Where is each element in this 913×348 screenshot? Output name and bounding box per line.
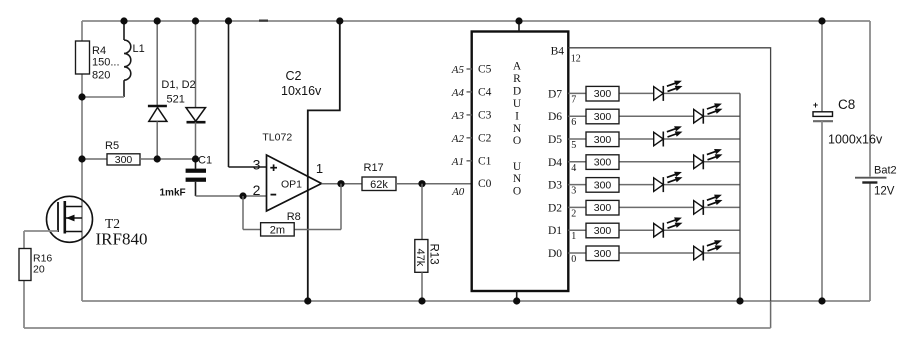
svg-text:62k: 62k	[370, 179, 388, 191]
pin B4 and wire to LED return bus	[551, 46, 771, 302]
wire feedback loop	[243, 184, 341, 230]
svg-text:300: 300	[594, 179, 612, 191]
wire row D7	[568, 92, 740, 94]
junction pin2 / feedback node	[239, 192, 246, 199]
wire outer bottom return	[24, 281, 771, 329]
svg-text:1: 1	[571, 231, 576, 242]
resistor 300 (D6)	[586, 109, 619, 124]
wire arduino bottom stub	[516, 291, 518, 301]
svg-text:A2: A2	[451, 133, 465, 145]
svg-text:7: 7	[571, 94, 576, 105]
junction top rail / L1	[120, 17, 127, 24]
pin stub A4	[451, 87, 472, 99]
svg-text:6: 6	[571, 117, 576, 128]
wire left frame vertical	[81, 21, 83, 301]
pin label D2	[548, 202, 576, 219]
svg-text:D6: D6	[548, 111, 562, 123]
resistor R17	[362, 162, 396, 191]
label D1 D2 values	[161, 79, 195, 105]
junction output node	[337, 180, 344, 187]
junction top rail / D2	[192, 17, 199, 24]
resistor 300 (D4)	[586, 155, 619, 170]
junction left rail / R5	[78, 155, 85, 162]
capacitor C8	[813, 21, 883, 301]
svg-text:D3: D3	[548, 180, 562, 192]
svg-text:C8: C8	[838, 97, 855, 112]
svg-text:+: +	[813, 100, 818, 110]
label ARDUINO UNO vertical	[513, 61, 522, 198]
wire row D4	[568, 161, 740, 163]
svg-text:1: 1	[316, 161, 323, 176]
LED D0	[694, 240, 723, 260]
svg-text:300: 300	[115, 154, 133, 166]
pin label D7	[548, 88, 576, 105]
svg-text:20: 20	[33, 264, 45, 276]
diode D2	[186, 21, 206, 159]
svg-text:D2: D2	[548, 202, 562, 214]
junction A0 / R13 node	[418, 180, 425, 187]
svg-text:10x16v: 10x16v	[281, 84, 322, 98]
svg-text:C2: C2	[286, 69, 302, 83]
pin stub A3	[451, 110, 472, 122]
svg-text:O: O	[513, 186, 521, 198]
svg-text:5: 5	[571, 140, 576, 151]
svg-text:D1: D1	[548, 225, 562, 237]
svg-text:R4: R4	[92, 45, 106, 57]
junction top rail / pin3 branch	[225, 17, 232, 24]
resistor 300 (D5)	[586, 132, 619, 147]
resistor 300 (D0)	[586, 246, 619, 261]
resistor R13	[414, 184, 439, 301]
LED D5	[654, 126, 683, 146]
junction bottom rail / LED bus	[736, 297, 743, 304]
svg-text:N: N	[513, 123, 522, 135]
svg-text:2m: 2m	[270, 225, 285, 237]
IC Arduino UNO	[472, 32, 569, 292]
svg-text:12V: 12V	[874, 186, 895, 198]
svg-text:A5: A5	[451, 64, 465, 76]
svg-text:300: 300	[594, 88, 612, 100]
junction bottom rail / C8	[818, 297, 825, 304]
svg-text:D7: D7	[548, 88, 562, 100]
junction C1 top node	[192, 155, 199, 162]
wire op-amp output to R17	[322, 183, 363, 185]
pin label D4	[548, 157, 576, 174]
svg-text:U: U	[513, 98, 522, 110]
svg-text:R5: R5	[105, 140, 119, 152]
wire C2 branch (stepped, top rail to bottom rail)	[308, 21, 340, 301]
pin label D1	[548, 225, 576, 242]
wire row D6	[568, 115, 740, 117]
svg-text:2: 2	[253, 182, 261, 198]
junction top rail / D1	[154, 17, 161, 24]
svg-text:R: R	[513, 73, 521, 85]
wire row D3	[568, 184, 740, 186]
svg-text:A: A	[513, 61, 522, 73]
svg-text:A0: A0	[451, 186, 465, 198]
wire R17 to A0	[396, 183, 472, 185]
svg-text:D4: D4	[548, 157, 562, 169]
svg-text:150...: 150...	[92, 57, 120, 69]
svg-text:C4: C4	[478, 86, 492, 98]
LED D7	[654, 81, 683, 101]
svg-text:820: 820	[92, 70, 110, 82]
inductor L1	[82, 21, 145, 97]
wire top rail to op-amp pin 3	[229, 21, 267, 167]
svg-text:521: 521	[167, 93, 185, 105]
svg-text:12: 12	[571, 54, 581, 65]
svg-text:2: 2	[571, 208, 576, 219]
svg-text:R13: R13	[428, 244, 440, 265]
svg-text:300: 300	[594, 225, 612, 237]
junction D1 / R5 wire	[154, 155, 161, 162]
wire right vertical (battery branch)	[869, 21, 871, 301]
LED D1	[654, 217, 683, 237]
LED D3	[654, 172, 683, 192]
resistor R5	[82, 140, 196, 166]
svg-text:I: I	[515, 110, 519, 122]
svg-text:3: 3	[571, 186, 576, 197]
pin stub A2	[451, 133, 472, 145]
junction top rail / arduino	[515, 17, 522, 24]
transistor T2 IRF840	[47, 196, 148, 248]
capacitor C2 label	[281, 69, 322, 98]
wire row D0	[568, 252, 740, 254]
junction R4-L1 node	[78, 93, 85, 100]
svg-text:Bat2: Bat2	[874, 165, 897, 177]
pin label D3	[548, 180, 576, 197]
junction top rail / C8	[818, 17, 825, 24]
svg-text:U: U	[513, 161, 522, 173]
svg-text:L1: L1	[133, 43, 145, 55]
pin labels C5-C0	[478, 64, 492, 191]
wire row D5	[568, 138, 740, 140]
resistor 300 (D3)	[586, 178, 619, 193]
wire arduino top stub	[518, 21, 520, 32]
svg-text:C3: C3	[478, 109, 492, 121]
svg-text:C1: C1	[198, 155, 212, 167]
svg-text:D5: D5	[548, 134, 562, 146]
svg-text:A4: A4	[451, 87, 465, 99]
LED D2	[694, 195, 723, 215]
svg-text:3: 3	[253, 157, 261, 173]
resistor 300 (D2)	[586, 200, 619, 215]
svg-text:0: 0	[571, 254, 576, 265]
svg-text:300: 300	[594, 134, 612, 146]
svg-text:C1: C1	[478, 155, 492, 167]
svg-text:N: N	[513, 173, 522, 185]
svg-text:C5: C5	[478, 64, 492, 76]
junction bottom rail / R13	[418, 297, 425, 304]
svg-text:B4: B4	[551, 46, 565, 58]
svg-text:R17: R17	[364, 162, 384, 174]
resistor R4	[76, 41, 120, 82]
LED D4	[694, 149, 723, 169]
svg-text:A1: A1	[451, 156, 464, 168]
battery Bat2	[855, 165, 897, 198]
svg-text:4: 4	[571, 163, 576, 174]
capacitor C1	[160, 155, 213, 199]
wire top rail	[82, 20, 870, 22]
resistor 300 (D7)	[586, 86, 619, 101]
wire C1 to op-amp pin 2	[196, 195, 267, 197]
pin label D6	[548, 111, 576, 128]
LED D6	[694, 103, 723, 123]
svg-text:D1, D2: D1, D2	[161, 79, 195, 91]
svg-text:1mkF: 1mkF	[160, 188, 186, 199]
svg-text:R8: R8	[287, 211, 301, 223]
svg-text:300: 300	[594, 202, 612, 214]
pin stub A1	[451, 156, 472, 168]
wire row D1	[568, 229, 740, 231]
diode D1	[148, 21, 167, 159]
svg-text:D: D	[513, 85, 521, 97]
svg-text:47k: 47k	[414, 249, 426, 267]
pin stub A5	[451, 64, 472, 76]
junction bottom rail / arduino	[513, 297, 520, 304]
svg-text:D0: D0	[548, 248, 562, 260]
svg-text:300: 300	[594, 111, 612, 123]
svg-text:A3: A3	[451, 110, 465, 122]
svg-text:C0: C0	[478, 178, 492, 190]
resistor 300 (D1)	[586, 223, 619, 238]
wire inner bottom rail	[82, 300, 870, 302]
resistor R16	[19, 249, 52, 281]
junction top rail / C2 branch	[336, 17, 343, 24]
svg-text:1000x16v: 1000x16v	[828, 133, 883, 147]
resistor R8	[261, 211, 301, 237]
op-amp U1 TL072 OP1	[253, 132, 324, 212]
svg-text:300: 300	[594, 157, 612, 169]
junction bottom rail / C2 branch	[304, 297, 311, 304]
wire row D2	[568, 206, 740, 208]
svg-text:TL072: TL072	[262, 132, 292, 144]
svg-text:O: O	[513, 135, 521, 147]
pin label D5	[548, 134, 576, 151]
svg-text:C2: C2	[478, 132, 492, 144]
wire gate lead	[24, 231, 58, 249]
svg-text:300: 300	[594, 248, 612, 260]
pin label D0	[548, 248, 576, 265]
svg-text:OP1: OP1	[281, 179, 302, 191]
svg-text:IRF840: IRF840	[96, 230, 148, 249]
wire LED anode bus	[739, 93, 741, 301]
